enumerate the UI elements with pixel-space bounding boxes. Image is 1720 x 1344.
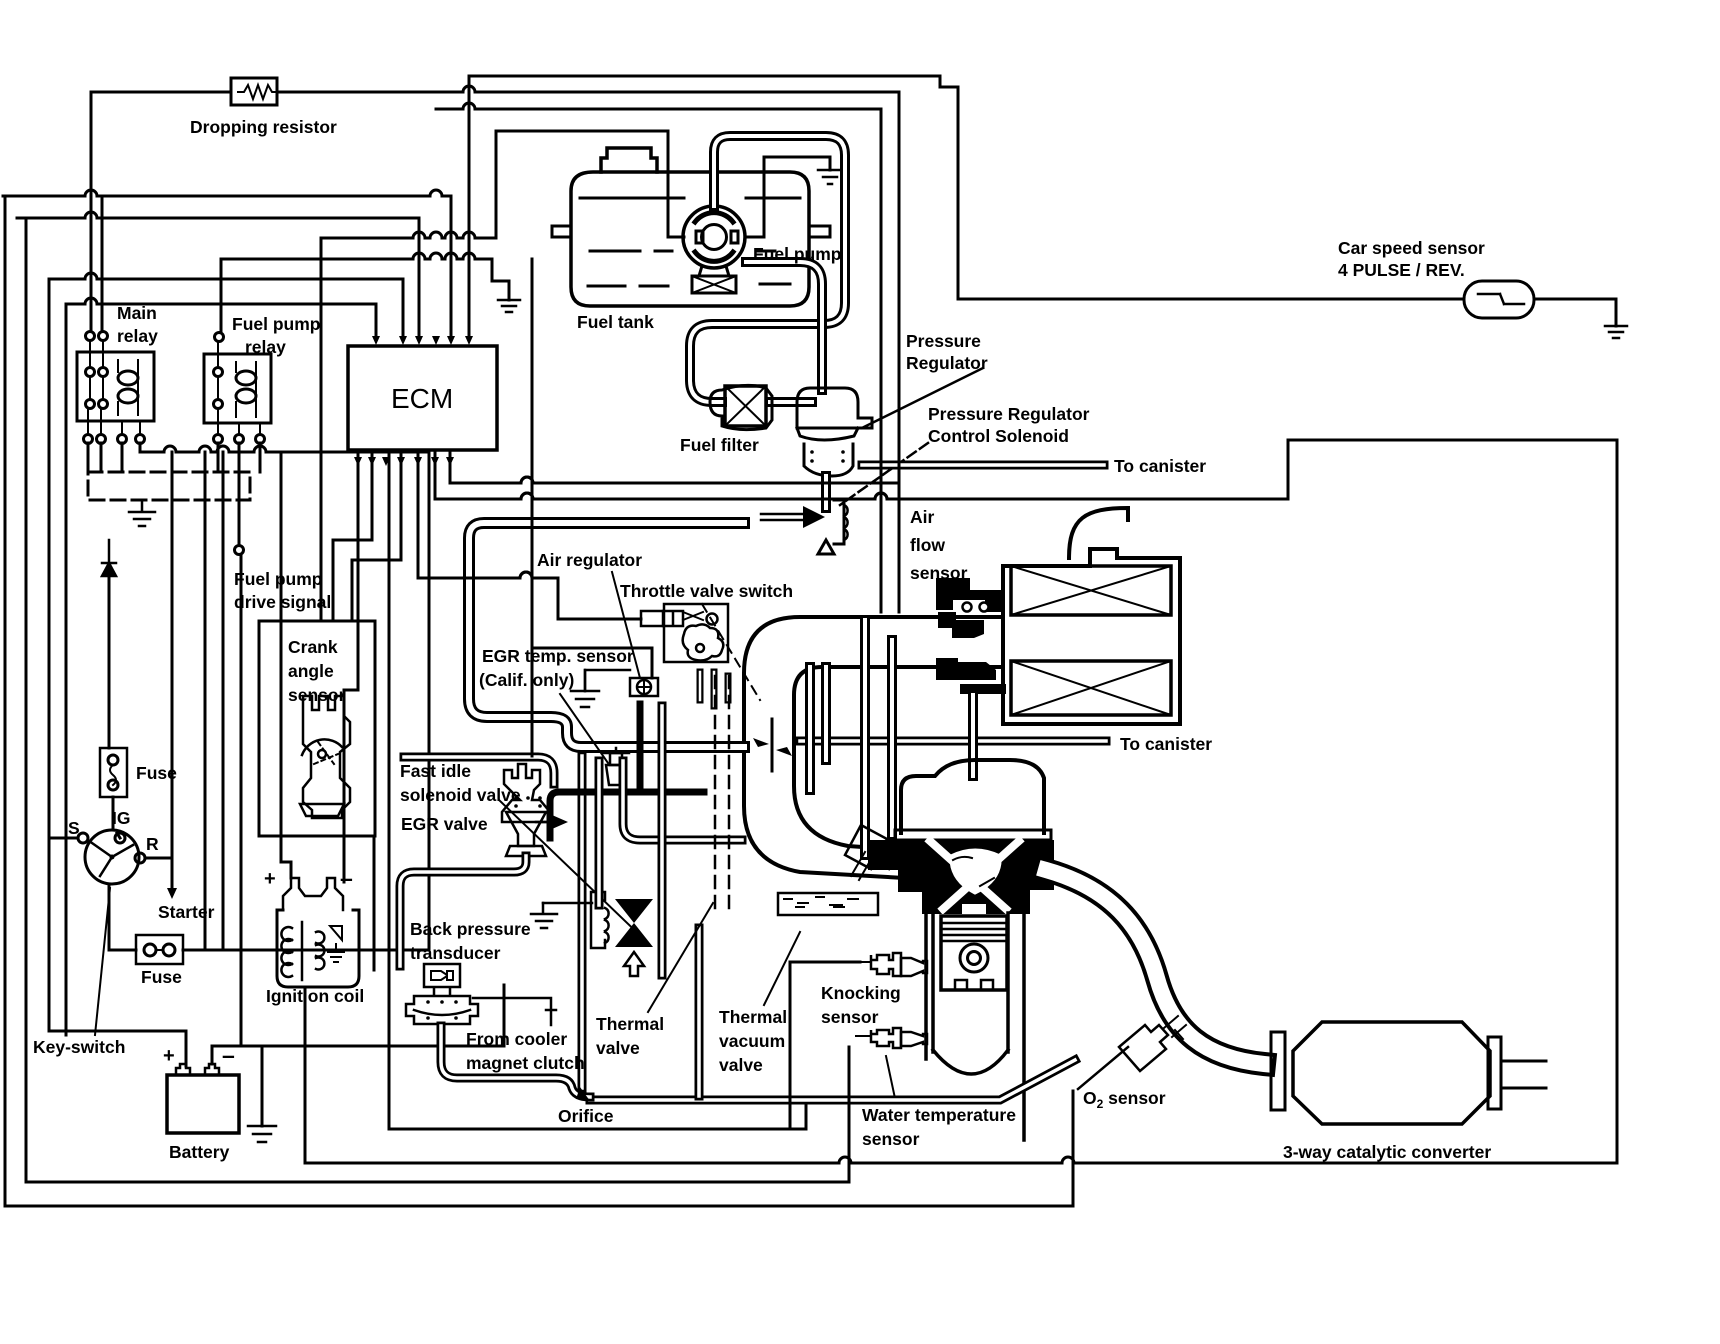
wire y=92 left of resistor [91,91,231,94]
wire main relay pin to y=452 run [140,443,429,950]
dashed harness connector [88,472,250,500]
wire bus y=238 [321,131,496,238]
orifice pipe diagonal [590,1060,1075,1100]
intake duct outer wall [744,617,1003,880]
air regulator hose loop [469,523,744,747]
cylinder head black [898,840,1054,914]
svg-text:Fuel pump: Fuel pump [232,314,320,334]
exhaust outlet pipes [1501,1061,1546,1088]
car speed sensor [1464,281,1534,318]
svg-text:Fast idle: Fast idle [400,761,471,781]
svg-text:From cooler: From cooler [466,1029,567,1049]
svg-text:valve: valve [719,1055,763,1075]
water temp sensor [856,1028,927,1048]
wire ECM pin x=358 to ignition coil [344,450,358,882]
svg-text:Air regulator: Air regulator [537,550,642,570]
wire to air regulator [533,648,652,678]
wire y=131 to fuel pump [496,131,684,237]
cylinder walls [926,890,1024,1140]
EGR temp sensor [603,748,629,785]
svg-text:R: R [146,834,159,854]
back pressure transducer top box [424,964,460,987]
wire drive signal down [240,556,243,1046]
svg-text:Water temperature: Water temperature [862,1105,1016,1125]
thermal valve coil [591,892,609,948]
leader thermal valve [648,903,713,1012]
leader fast idle solenoid valve [499,800,649,944]
bottom bus y=1182 [26,1181,849,1184]
svg-text:Fuel pump: Fuel pump [234,569,322,589]
svg-text:sensor: sensor [910,563,968,583]
EGR arrow [536,821,556,824]
svg-text:Fuse: Fuse [141,967,182,987]
leader air regulator [612,572,640,678]
wire left vertical x=5 [4,196,7,1206]
ground battery [248,1126,276,1142]
svg-text:Throttle valve switch: Throttle valve switch [620,581,793,601]
svg-text:Crank: Crank [288,637,338,657]
vacuum stub pipes at throttle [700,672,728,706]
air flow sensor terminals [963,603,972,612]
leader EGR temp sensor [560,694,608,763]
svg-text:sensor: sensor [821,1007,879,1027]
throttle arrows [753,738,792,756]
wire ECM to throttle valve switch [418,572,641,619]
plenum pipe pair A [805,667,815,790]
wire key switch bottom to fuse lower [109,884,136,950]
svg-text:Air: Air [910,507,935,527]
fuel pipe pump outlet to pressure regulator [746,262,822,390]
injector [845,825,897,880]
wire x=91 to main relay [90,92,93,330]
svg-text:+: + [163,1045,175,1067]
svg-text:IG: IG [112,808,130,828]
throttle valve switch connector [641,611,663,626]
svg-text:Control Solenoid: Control Solenoid [928,426,1069,446]
air inlet curve [1069,508,1128,558]
diode [102,540,116,576]
wire R to starter [145,857,172,860]
air cleaner element lower [1011,661,1171,715]
air cleaner element upper [1011,566,1171,615]
wire overlay restrokes [389,92,1288,1206]
wire x=469 ECM from y=76 [468,76,471,338]
fuel pipe filter to regulator line [770,397,812,407]
wire x=223 up [222,452,225,950]
dashed passage vertical [715,676,729,908]
piston [941,916,1007,990]
svg-text:–: – [222,1042,235,1068]
ground below connector [129,500,155,526]
wire pump to ground [745,157,830,237]
leader key switch [95,888,110,1035]
fuse lower [136,935,183,964]
wire ignition coil + up [281,452,291,878]
wire sensor to ground [1534,299,1616,326]
dropping resistor R [231,78,278,105]
runner pipe long D [887,640,897,835]
wire bus y=196 [3,190,451,338]
wire main relay contact feed [101,196,104,331]
svg-text:S: S [68,818,80,838]
back pressure transducer body [406,988,478,1024]
wire left vertical x=66 [65,304,68,1035]
svg-text:drive signal: drive signal [234,592,331,612]
wire x=205 [204,452,207,950]
wire ignition coil area down x=305 [304,988,307,1163]
battery [167,1064,239,1133]
crank angle sensor pictorial [300,696,350,818]
intake duct inner wall [794,667,1003,852]
orifice riser pipe [578,756,587,1088]
svg-text:Key-switch: Key-switch [33,1037,125,1057]
svg-text:Pressure: Pressure [906,331,981,351]
svg-text:valve: valve [596,1038,640,1058]
wire ECM pin x=401 to crank sensor [352,450,401,621]
svg-text:Regulator: Regulator [906,353,988,373]
svg-text:sensor: sensor [862,1129,920,1149]
runner pipe long C [860,620,870,855]
svg-text:Fuel tank: Fuel tank [577,312,654,332]
wire fuse lower to battery plus [183,949,429,952]
EGR pipe down to transducer [400,856,526,966]
svg-text:Orifice: Orifice [558,1106,614,1126]
intake stack pipe [968,695,978,776]
ECM U1 [348,346,497,450]
thermal valve feed pipe [595,761,604,905]
wire ECM pin x=450 to right y=483 [450,450,899,483]
valves white X [930,841,1019,909]
wire battery minus to ground [212,985,504,1126]
fast idle solenoid black triangles [615,899,653,947]
pipe to canister lower [800,737,1106,746]
svg-text:Starter: Starter [158,902,215,922]
ECM arrows top [372,336,473,345]
wire ECM pin x=386 down to bottom enclosure [389,450,806,1129]
fuel pump M1 [683,206,745,293]
fuel pump relay [204,333,271,444]
knocking sensor Q [858,953,927,976]
svg-text:EGR valve: EGR valve [401,814,488,834]
svg-text:sensor: sensor [288,685,346,705]
wire y=92 resistor to right, down at x=899 [277,86,899,612]
starter arrow [171,452,174,888]
svg-text:transducer: transducer [410,943,501,963]
wire air regulator to ground [585,670,630,691]
key switch [78,830,145,884]
main relay [77,332,154,444]
EGR pipe from plenum [404,757,554,784]
air flow sensor body lower black [936,658,1006,694]
svg-text:3-way catalytic converter: 3-way catalytic converter [1283,1142,1491,1162]
fuel mixture box [778,893,878,915]
svg-text:vacuum: vacuum [719,1031,785,1051]
exhaust pipe to converter [1046,870,1264,1064]
wire bus y=259 [221,253,509,300]
ground car speed sensor [1605,326,1627,338]
wire y=109 bus [436,103,881,612]
terminal fuel pump drive signal [235,546,244,555]
wire S to left [49,837,78,840]
wire long vertical x=532 [531,259,534,756]
svg-text:(Calif. only): (Calif. only) [479,670,574,690]
air regulator device [630,678,658,696]
svg-text:Fuel pump: Fuel pump [753,244,841,264]
leader water temp sensor [886,1056,896,1103]
svg-text:magnet clutch: magnet clutch [466,1053,585,1073]
wire bus y=218 [17,212,419,338]
check valve stub [473,998,556,1025]
svg-text:Battery: Battery [169,1142,230,1162]
pipe to canister upper [862,461,1104,470]
wire top bus y=76 to car speed sensor [469,76,1462,299]
EGR outlet heavy pipe [550,792,704,838]
ground thermal [531,903,557,928]
ignition coil [277,878,359,987]
svg-text:relay: relay [117,326,158,346]
bottom bus y=1206 [5,1205,1073,1208]
fuel tank [552,148,830,306]
wire knocking sensor left [790,962,860,1129]
svg-text:Thermal: Thermal [596,1014,664,1034]
svg-text:Back pressure: Back pressure [410,919,531,939]
svg-text:EGR temp. sensor: EGR temp. sensor [482,646,634,666]
svg-text:Knocking: Knocking [821,983,901,1003]
throttle valve switch box [664,604,728,662]
pressure regulator [797,388,872,476]
wire bus y=279 [49,273,403,338]
plenum pipe pair B [821,667,831,760]
valve cover flange [895,830,1051,840]
orifice arrow [576,1087,590,1101]
leader pressure regulator control solenoid [840,443,928,505]
bottom bus y=1165 [305,1157,1617,1163]
ECM bottom pins [354,457,454,466]
throttle valve plate [771,719,774,771]
catalytic converter body [1293,1022,1490,1124]
svg-text:Car speed sensor: Car speed sensor [1338,238,1485,258]
fuel pipe pump to filter [690,136,845,402]
svg-text:To canister: To canister [1120,734,1212,754]
throttle leader dashes [702,604,760,700]
pipe transducer to orifice riser [441,1026,590,1097]
wire left vertical x=49 [48,279,51,1031]
svg-text:Fuel filter: Fuel filter [680,435,759,455]
air flow sensor body upper black [936,578,1005,638]
svg-text:solenoid valve: solenoid valve [400,785,521,805]
wire ECM pin x=372 to crank sensor [333,450,372,621]
ground near ECM [498,300,520,312]
fuel pipe regulator down to solenoid [821,476,831,508]
wire fuel pump relay coil feed [220,259,223,332]
manifold branch pipe [623,761,742,840]
wire crank box right down [373,836,376,970]
combustion chamber white [951,850,1000,893]
catalytic converter flange right [1488,1037,1501,1109]
svg-text:Thermal: Thermal [719,1007,787,1027]
svg-text:O2 sensor: O2 sensor [1083,1088,1166,1111]
wire bus y=304 [66,298,376,338]
svg-text:relay: relay [245,337,286,357]
svg-text:To canister: To canister [1114,456,1206,476]
svg-text:–: – [340,865,353,891]
svg-text:Pressure Regulator: Pressure Regulator [928,404,1090,424]
wire O2 sensor down x=1073 [1072,1091,1075,1206]
air cleaner housing [1003,549,1180,724]
white arrow under triangles [624,952,644,976]
svg-text:flow: flow [910,535,945,555]
svg-text:angle: angle [288,661,334,681]
svg-text:Ignition coil: Ignition coil [266,986,364,1006]
ground fuel pump [818,170,842,184]
fuel filter [710,385,772,429]
pressure regulator control solenoid [761,500,848,554]
cylinder bottom arc [933,1050,1008,1074]
EGR passage pipe stub [637,704,644,790]
leader pressure regulator [862,368,983,428]
wire relay bottoms to dashed connector [88,443,260,545]
valve cover [901,760,1044,833]
svg-text:Fuse: Fuse [136,763,177,783]
wire water temp sensor down [848,1047,851,1182]
wire x=321 down to crank sensor box [320,238,323,621]
wire left vertical x=26 [25,218,28,1182]
EGR valve [502,764,550,856]
ground calif [571,691,599,707]
svg-text:ECM: ECM [391,383,453,414]
intake gasket black [868,840,898,870]
svg-text:Dropping resistor: Dropping resistor [190,117,337,137]
riser pipe x=699 [695,928,704,1096]
svg-text:Main: Main [117,303,157,323]
O2 sensor [1119,1016,1186,1071]
crank angle sensor box [259,621,375,836]
catalytic converter flange left [1271,1032,1285,1110]
wire ECM pin x=435 long right y=499 [435,440,1617,1163]
svg-text:4 PULSE / REV.: 4 PULSE / REV. [1338,260,1465,280]
fuse upper [100,748,127,797]
svg-text:+: + [264,868,276,890]
leader thermal vacuum valve [764,932,800,1005]
